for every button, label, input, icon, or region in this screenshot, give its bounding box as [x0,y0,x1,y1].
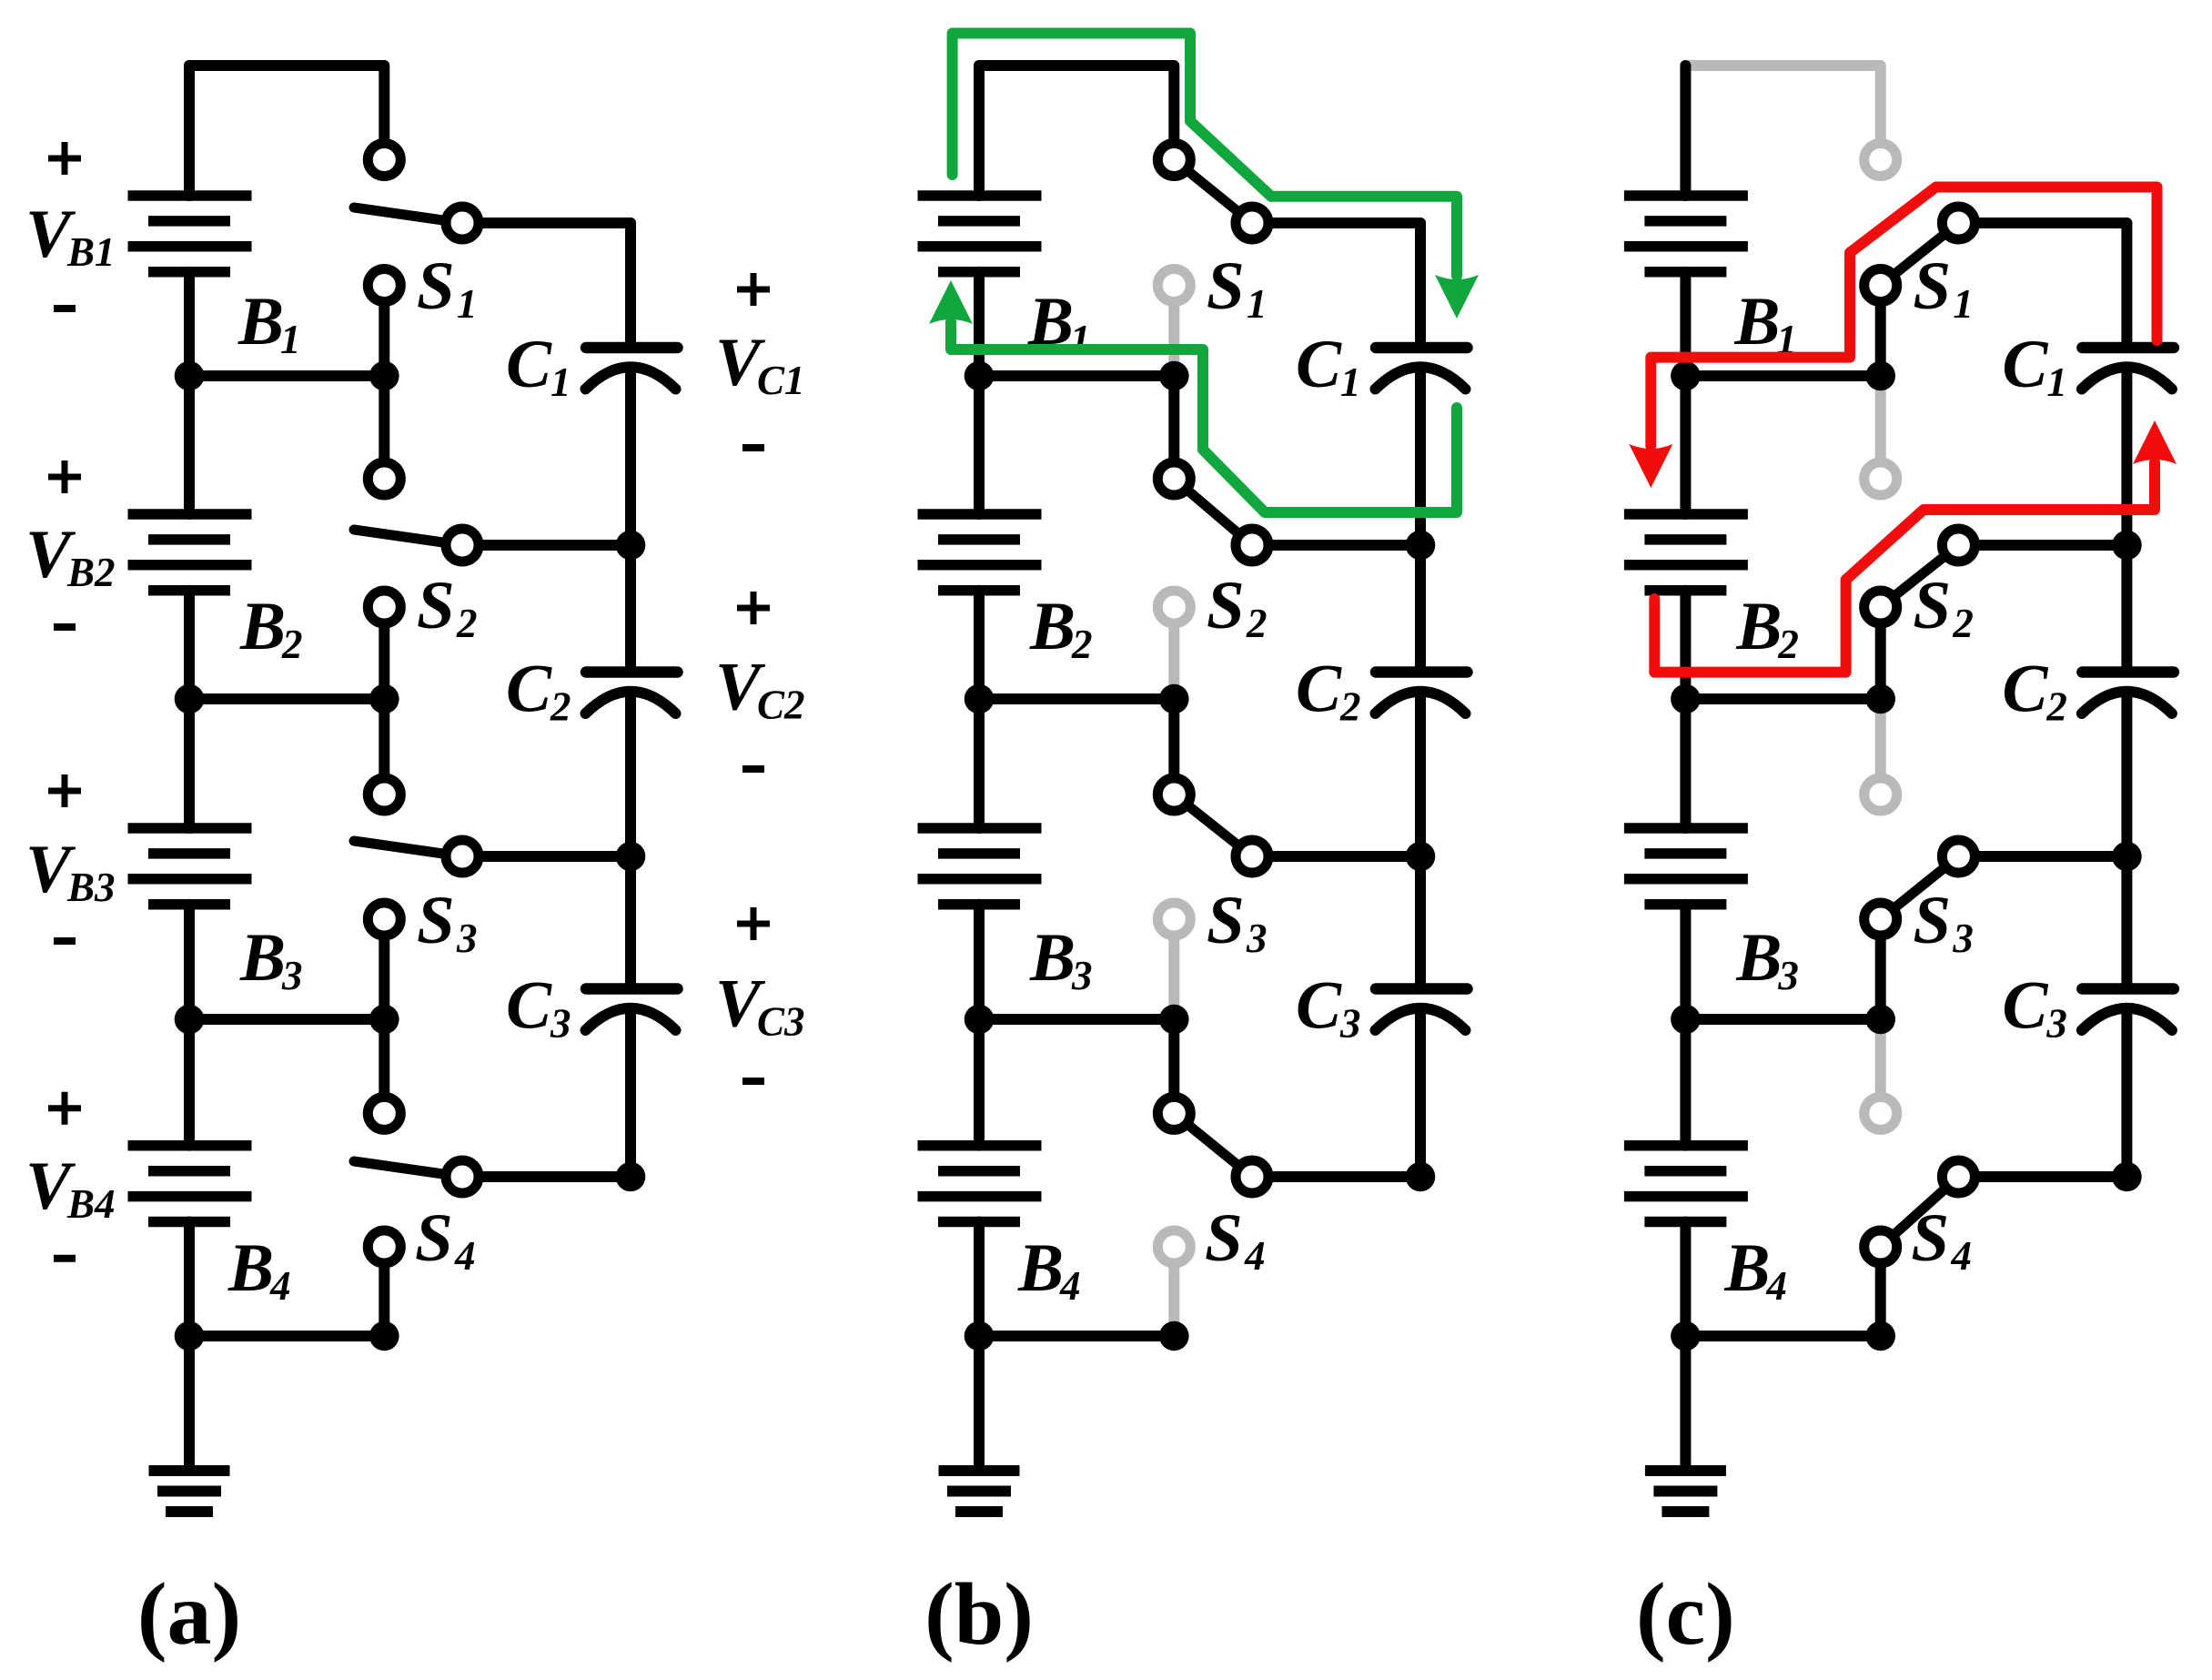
svg-text:3: 3 [1952,916,1974,961]
svg-text:S: S [415,1200,453,1276]
svg-text:C: C [2002,968,2048,1044]
svg-text:S: S [1207,568,1245,643]
svg-text:1: 1 [457,281,478,327]
svg-text:2: 2 [1246,601,1268,646]
svg-text:3: 3 [2045,1001,2067,1047]
svg-text:(b): (b) [924,1565,1034,1664]
svg-text:B: B [237,284,284,359]
svg-text:2: 2 [550,684,571,730]
svg-text:4: 4 [1765,1263,1787,1309]
svg-text:4: 4 [1244,1233,1266,1279]
svg-text:B: B [1029,920,1076,996]
svg-text:S: S [1913,248,1951,324]
svg-text:C: C [1296,327,1342,402]
svg-text:(a): (a) [137,1565,241,1664]
svg-text:3: 3 [550,1001,571,1047]
svg-text:C: C [2002,327,2048,402]
svg-text:1: 1 [1953,281,1974,327]
svg-text:2: 2 [2045,684,2067,730]
svg-text:C: C [1296,968,1342,1044]
svg-text:B4: B4 [66,1181,116,1227]
svg-text:4: 4 [1059,1263,1081,1309]
svg-text:S: S [417,883,455,958]
svg-text:C2: C2 [757,683,805,728]
svg-text:B: B [1733,284,1780,359]
svg-text:C: C [1296,652,1342,727]
svg-text:C: C [506,652,552,727]
svg-text:4: 4 [269,1263,291,1309]
svg-text:2: 2 [1339,684,1361,730]
svg-text:B: B [1017,1230,1064,1306]
svg-text:3: 3 [1071,953,1093,998]
svg-text:1: 1 [1070,317,1091,362]
svg-text:1: 1 [2046,359,2067,405]
svg-text:C: C [506,968,552,1044]
svg-text:4: 4 [1950,1233,1972,1279]
svg-text:B: B [239,589,286,664]
svg-text:4: 4 [454,1233,476,1279]
svg-text:3: 3 [456,916,478,961]
svg-text:B3: B3 [66,865,116,910]
svg-text:S: S [1913,568,1951,643]
svg-text:S: S [417,568,455,643]
svg-text:B: B [1723,1230,1770,1306]
svg-text:1: 1 [280,317,301,362]
svg-text:2: 2 [1952,601,1974,646]
svg-text:B1: B1 [66,229,116,275]
svg-text:(c): (c) [1636,1565,1735,1664]
svg-text:B: B [1735,920,1782,996]
svg-text:3: 3 [1777,953,1799,998]
svg-text:B: B [239,920,286,996]
svg-text:S: S [1205,1200,1243,1276]
svg-text:S: S [1207,883,1245,958]
svg-text:2: 2 [1071,622,1093,667]
svg-text:1: 1 [1340,359,1361,405]
svg-text:1: 1 [550,359,571,405]
svg-text:B: B [1735,589,1782,664]
svg-text:S: S [1913,883,1951,958]
svg-text:C: C [2002,652,2048,727]
svg-text:1: 1 [1247,281,1268,327]
svg-text:2: 2 [281,622,303,667]
svg-text:B: B [227,1230,274,1306]
svg-text:3: 3 [1246,916,1268,961]
svg-text:S: S [417,248,455,324]
svg-text:C: C [506,327,552,402]
svg-text:S: S [1911,1200,1949,1276]
svg-text:B: B [1029,589,1076,664]
svg-text:2: 2 [456,601,478,646]
svg-text:3: 3 [281,953,303,998]
svg-text:S: S [1207,248,1245,324]
svg-text:2: 2 [1777,622,1799,667]
svg-text:3: 3 [1339,1001,1361,1047]
svg-text:B2: B2 [66,550,116,595]
svg-text:C3: C3 [757,999,805,1045]
svg-text:C1: C1 [757,358,805,403]
